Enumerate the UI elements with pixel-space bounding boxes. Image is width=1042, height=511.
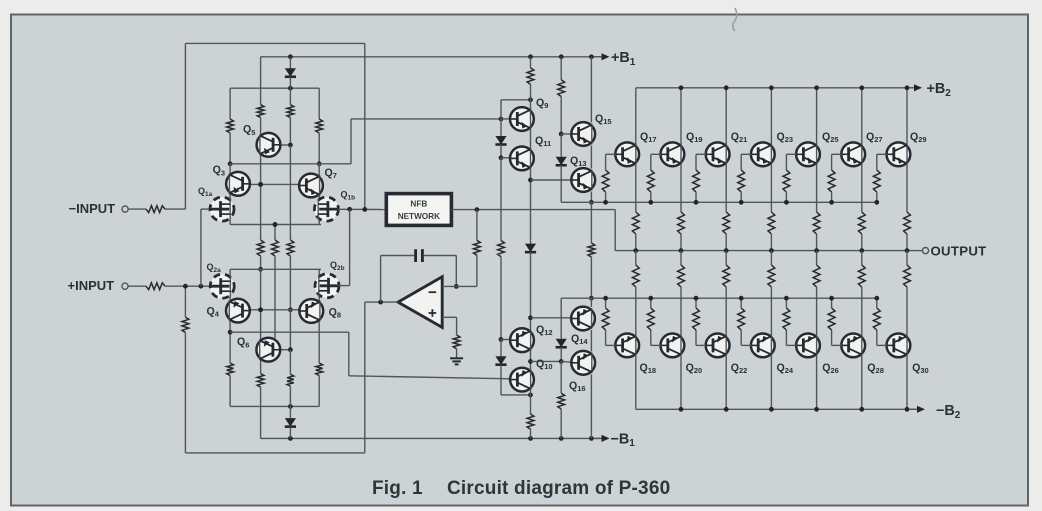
wire Q2b gate lead bbox=[338, 285, 349, 287]
wire Q14 base lead bbox=[531, 317, 572, 319]
wire bias column Q6 base down bbox=[289, 350, 291, 375]
junction lower bus col 6 bbox=[874, 296, 879, 301]
resistor Q15 bias bbox=[558, 80, 565, 97]
wire emitter Q19 down bbox=[680, 164, 682, 212]
wire collector Q17 to +B2 bbox=[635, 88, 637, 145]
wire center column to lower bus bbox=[260, 256, 262, 269]
junction +B2 rail col 5 bbox=[859, 85, 864, 90]
wire base resistor Q23 to bus bbox=[740, 192, 742, 202]
junction upper bus col 2 bbox=[694, 200, 699, 205]
wire base resistor Q21 to bus bbox=[695, 192, 697, 202]
wire op-amp apex lead bbox=[365, 301, 398, 303]
resistor emitter Q29 bbox=[904, 212, 911, 234]
wire diode chain to Q11 base bbox=[500, 148, 502, 158]
wire middle tail resistor lower lead bbox=[274, 256, 276, 338]
resistor center tail middle bbox=[272, 240, 279, 256]
transistor Q4 bbox=[226, 299, 250, 323]
junction upper bus middle resistor bbox=[273, 222, 278, 227]
wire Q2b gate tie vertical bbox=[349, 209, 351, 285]
wire collector Q21 to +B2 bbox=[725, 88, 727, 145]
wire base resistor Q30 to bus bbox=[876, 298, 878, 308]
junction -B2 rail col 5 bbox=[859, 407, 864, 412]
resistor -INPUT series bbox=[146, 206, 165, 213]
wire base lead Q28 bbox=[832, 344, 842, 346]
wire VAS column to node bbox=[530, 84, 532, 99]
junction Q5 base bbox=[288, 143, 293, 148]
wire base resistor Q17 to bus bbox=[605, 192, 607, 202]
junction -B2 rail col 1 bbox=[679, 407, 684, 412]
wire lower source bus bbox=[230, 268, 321, 270]
wire Q13 emitter to upper bus bbox=[590, 192, 592, 203]
resistor base Q26 bbox=[783, 308, 790, 330]
transistor Q30 bbox=[887, 334, 911, 358]
wire resistor to ground bbox=[456, 349, 458, 359]
wire VAS column to Q12 bbox=[530, 256, 532, 395]
junction upper bus col 1 bbox=[648, 200, 653, 205]
wire Q10 base line bbox=[349, 376, 511, 379]
wire base resistor Q25 to bus bbox=[785, 192, 787, 202]
wire center column to -B1 corner bbox=[260, 387, 262, 438]
wire collector Q26 to -B2 bbox=[816, 355, 818, 409]
wire diode chain bottom segment bbox=[500, 340, 502, 353]
transistor Q6 bbox=[256, 338, 280, 362]
wire +INPUT resistor to gate lead bbox=[165, 285, 211, 287]
svg-text:OUTPUT: OUTPUT bbox=[931, 244, 987, 259]
junction output rail col 3 bbox=[769, 248, 774, 253]
transistor Q19 bbox=[661, 142, 685, 166]
wire base tap line y332 bbox=[230, 331, 349, 333]
diode D3 bbox=[500, 353, 502, 356]
wire Q1a gate lead bbox=[201, 208, 211, 210]
wire Q9 base lead bbox=[501, 118, 510, 120]
wire Q16 base lead bbox=[561, 360, 571, 363]
transistor Q27 bbox=[841, 142, 865, 166]
wire Q15 bias column from +B1 bbox=[560, 57, 562, 80]
wire center column from +B1 bbox=[260, 57, 262, 105]
wire -B2 rail bbox=[636, 408, 917, 410]
junction Q16 base bbox=[559, 359, 564, 364]
resistor base Q23 bbox=[738, 170, 745, 192]
wire middle tail resistor upper lead bbox=[274, 225, 276, 241]
resistor emitter Q17 bbox=[632, 212, 639, 234]
junction lower bus col 1 bbox=[648, 296, 653, 301]
junction -B1 left diode branch bbox=[288, 436, 293, 441]
wire diode to Q16 base node bbox=[560, 351, 562, 362]
resistor diode chain middle bbox=[498, 241, 505, 257]
wire -INPUT to resistor bbox=[128, 208, 146, 210]
junction upper bus col 4 bbox=[784, 200, 789, 205]
junction +B1 left diode branch bbox=[288, 54, 293, 59]
wire collector Q29 to +B2 bbox=[906, 88, 908, 145]
resistor between buses bbox=[588, 243, 595, 257]
wire Q15 base lead bbox=[561, 133, 571, 135]
junction -B2 rail col 4 bbox=[814, 407, 819, 412]
junction -B2 rail col 2 bbox=[724, 407, 729, 412]
wire emitter resistor Q20 to transistor bbox=[680, 287, 682, 335]
wire top feedback loop right vertical bbox=[364, 43, 366, 209]
resistor right column upper bbox=[316, 119, 323, 133]
diode D4 bbox=[560, 154, 562, 157]
resistor base Q30 bbox=[873, 308, 880, 330]
wire NFB output line bbox=[451, 209, 615, 211]
transistor Q29 bbox=[887, 142, 911, 166]
junction -B1 Q16 bias column bbox=[559, 436, 564, 441]
transistor Q2a (FET) bbox=[210, 274, 234, 298]
transistor Q18 bbox=[615, 334, 639, 358]
wire base lead Q26 bbox=[786, 344, 796, 346]
wire emitter Q24 up bbox=[770, 251, 772, 265]
wire base resistor Q26 to bus bbox=[785, 298, 787, 308]
junction Q8 base bbox=[288, 307, 293, 312]
junction +INPUT loop node bbox=[183, 284, 188, 289]
junction +B2 rail col 6 bbox=[905, 85, 910, 90]
wire base resistor Q20 to bus bbox=[650, 298, 652, 308]
junction lower bus col 2 bbox=[694, 296, 699, 301]
wire Q3-Q7 base line bbox=[250, 183, 299, 185]
wire left column Q2a/Q4 feed bbox=[229, 269, 231, 351]
resistor base Q21 bbox=[693, 170, 700, 192]
op-amp plus sign bbox=[429, 312, 437, 314]
resistor center tail right bbox=[287, 240, 294, 256]
wire base resistor Q24 to bus bbox=[740, 298, 742, 308]
wire VAS column Q9 Q11 segment bbox=[530, 100, 532, 241]
resistor base Q27 bbox=[828, 170, 835, 192]
junction Q16 base tap bbox=[528, 359, 533, 364]
wire emitter resistor Q28 to transistor bbox=[861, 287, 863, 335]
wire diode chain Q9 base segment bbox=[500, 119, 502, 133]
wire base lead Q29 bbox=[877, 153, 887, 155]
wire base Q21 down bbox=[695, 154, 697, 170]
wire +B1 rail bbox=[261, 56, 601, 58]
wire emitter resistor Q25 to output rail bbox=[816, 234, 818, 251]
wire op-amp inverting lead bbox=[442, 285, 477, 287]
junction output rail col 0 bbox=[633, 248, 638, 253]
wire base lead Q27 bbox=[832, 153, 842, 155]
wire base resistor Q29 to bus bbox=[876, 192, 878, 202]
junction upper bus driver bbox=[589, 200, 594, 205]
wire emitter resistor Q17 to output rail bbox=[635, 234, 637, 251]
wire Q15 to Q13 bbox=[590, 146, 592, 169]
resistor center column upper bbox=[257, 105, 264, 118]
transistor Q17 bbox=[615, 142, 639, 166]
resistor to ground bbox=[453, 335, 460, 349]
terminal +INPUT bbox=[122, 283, 128, 289]
wire emitter resistor Q18 to transistor bbox=[635, 287, 637, 335]
resistor +INPUT series bbox=[146, 283, 165, 290]
transistor Q21 bbox=[706, 142, 730, 166]
wire Q5 base lead bbox=[280, 144, 290, 146]
wire Q12 base lead bbox=[501, 339, 510, 341]
resistor emitter Q21 bbox=[723, 212, 730, 234]
junction -B1 VAS column bbox=[528, 436, 533, 441]
junction Q14 base tap bbox=[528, 315, 533, 320]
wire right column to collector line bbox=[318, 133, 320, 164]
resistor emitter Q19 bbox=[678, 212, 685, 234]
wire top feedback loop horizontal bbox=[185, 42, 364, 44]
wire bias column to tail resistor bbox=[289, 184, 291, 240]
wire emitter Q29 down bbox=[906, 164, 908, 212]
resistor base Q18 bbox=[602, 308, 609, 330]
wire bottom servo loop left vertical lower part bbox=[184, 333, 186, 453]
resistor emitter Q24 bbox=[768, 265, 775, 287]
wire Q15 base node to diode bbox=[560, 134, 562, 154]
wire base lead Q24 bbox=[741, 344, 751, 346]
resistor left column upper bbox=[227, 119, 234, 133]
terminal -INPUT bbox=[122, 206, 128, 212]
resistor emitter Q20 bbox=[678, 265, 685, 287]
wire emitter resistor Q22 to transistor bbox=[725, 287, 727, 335]
resistor base Q19 bbox=[647, 170, 654, 192]
diode D1 bbox=[500, 133, 502, 137]
wire Q13 base lead bbox=[531, 179, 574, 181]
junction -B1 driver column bbox=[589, 436, 594, 441]
junction lower bus col 3 bbox=[739, 296, 744, 301]
wire base resistor Q19 to bus bbox=[650, 192, 652, 202]
junction upper bus col 3 bbox=[739, 200, 744, 205]
wire base Q27 down bbox=[831, 154, 833, 170]
resistor base Q17 bbox=[602, 170, 609, 192]
transistor Q23 bbox=[751, 142, 775, 166]
wire emitter Q26 up bbox=[816, 251, 818, 265]
wire diode to upper base bus corner bbox=[560, 169, 562, 203]
wire emitter resistor Q23 to output rail bbox=[770, 234, 772, 251]
wire capacitor left lead bbox=[381, 255, 415, 257]
wire center column to Q5 bbox=[260, 118, 262, 185]
resistor base Q20 bbox=[647, 308, 654, 330]
op-amp U1 bbox=[398, 277, 442, 328]
diode D2 bbox=[530, 240, 532, 243]
wire center column Q6 feed bbox=[260, 269, 262, 373]
resistor emitter Q18 bbox=[632, 265, 639, 287]
junction Q4 base node bbox=[258, 307, 263, 312]
wire Q1b gate lead to NFB network bbox=[338, 208, 387, 210]
wire base resistor Q27 to bus bbox=[831, 192, 833, 202]
junction lower bus col 0 bbox=[603, 296, 608, 301]
junction Q11 base bbox=[499, 155, 504, 160]
junction Q9 base line diode chain bbox=[499, 117, 504, 122]
wire base Q24 up bbox=[740, 330, 742, 345]
transistor Q28 bbox=[841, 334, 865, 358]
wire base lead Q19 bbox=[651, 153, 661, 155]
wire collector Q28 to -B2 bbox=[861, 355, 863, 409]
resistor emitter Q25 bbox=[813, 212, 820, 234]
wire collector Q18 to -B2 bbox=[635, 355, 637, 409]
wire capacitor right lead bbox=[424, 255, 457, 257]
wire bias column to box bottom bbox=[289, 386, 291, 406]
wire inner box bottom bbox=[230, 405, 319, 407]
wire base lead Q23 bbox=[741, 153, 751, 155]
junction left column collector line bbox=[228, 161, 233, 166]
transistor Q24 bbox=[751, 334, 775, 358]
junction box bottom diode column bbox=[288, 404, 293, 409]
wire base resistor Q22 to bus bbox=[695, 298, 697, 308]
wire left column to collector line bbox=[229, 133, 231, 164]
wire base Q17 down bbox=[605, 154, 607, 170]
wire base lead Q17 bbox=[606, 153, 616, 155]
transistor Q20 bbox=[661, 334, 685, 358]
junction lower bus driver bbox=[589, 296, 594, 301]
resistor Q16 bias bbox=[558, 393, 565, 409]
wire base Q26 up bbox=[785, 330, 787, 345]
transistor Q11 bbox=[510, 147, 534, 171]
wire base Q18 up bbox=[605, 330, 607, 345]
wire bias column to Q5 base bbox=[289, 118, 291, 145]
wire right column Q7/Q1b feed bbox=[318, 164, 320, 225]
resistor base Q22 bbox=[693, 308, 700, 330]
wire collector Q19 to +B2 bbox=[680, 88, 682, 145]
junction op-amp apex capacitor branch bbox=[378, 300, 383, 305]
wire Q16 bias resistor upper lead bbox=[560, 361, 562, 393]
wire Q16 bias to -B1 bbox=[560, 409, 562, 438]
junction +B1 driver column bbox=[589, 54, 594, 59]
wire emitter Q17 down bbox=[635, 164, 637, 212]
wire capacitor branch vertical bbox=[380, 256, 382, 303]
resistor base Q24 bbox=[738, 308, 745, 330]
wire base resistor Q28 to bus bbox=[831, 298, 833, 308]
wire left column Q3/Q1a feed bbox=[229, 164, 231, 225]
resistor emitter Q26 bbox=[813, 265, 820, 287]
wire right column to box bottom bbox=[318, 351, 320, 363]
wire bias resistor between buses lower lead bbox=[590, 257, 592, 298]
wire left column to box bottom bbox=[229, 351, 231, 363]
junction +INPUT gate tie node bbox=[199, 284, 204, 289]
wire VAS column from +B1 bbox=[530, 57, 532, 68]
wire emitter resistor Q24 to transistor bbox=[770, 287, 772, 335]
wire base lead Q18 bbox=[606, 344, 616, 346]
resistor VAS column bottom bbox=[527, 414, 534, 429]
wire non-inverting to resistor bbox=[456, 317, 458, 335]
wire diode chain top corner bbox=[500, 100, 502, 119]
wire emitter Q25 down bbox=[816, 164, 818, 212]
wire bias column Q5 base to Q7 base bbox=[289, 145, 291, 184]
wire diode chain middle segment bbox=[500, 158, 502, 241]
arrow +B1 bbox=[595, 56, 604, 58]
svg-text:−INPUT: −INPUT bbox=[69, 201, 116, 216]
junction +B2 rail col 4 bbox=[814, 85, 819, 90]
junction output rail col 1 bbox=[679, 248, 684, 253]
junction NFB line op-amp branch bbox=[475, 207, 480, 212]
junction Q13 base tap bbox=[528, 178, 533, 183]
diode left block bottom bbox=[289, 406, 291, 418]
junction Q3 base node bbox=[258, 182, 263, 187]
junction upper bus col 6 bbox=[874, 200, 879, 205]
junction +B1 Q9 column bbox=[528, 54, 533, 59]
resistor emitter Q30 bbox=[904, 265, 911, 287]
wire lower base bus bbox=[561, 297, 877, 299]
transistor Q16 bbox=[571, 351, 595, 375]
resistor center column lower bbox=[257, 374, 264, 388]
wire right column top segment bbox=[318, 88, 320, 119]
junction +B2 rail col 2 bbox=[724, 85, 729, 90]
transistor Q13 bbox=[571, 168, 595, 192]
wire lower base bus corner down bbox=[560, 298, 562, 335]
transistor Q9 bbox=[510, 107, 534, 131]
resistor on servo loop left vertical bbox=[182, 317, 189, 332]
wire upper base bus bbox=[561, 201, 877, 203]
arrow -B1 bbox=[595, 437, 604, 439]
resistor base Q29 bbox=[873, 170, 880, 192]
svg-text:NETWORK: NETWORK bbox=[398, 212, 440, 221]
junction lower bus col 5 bbox=[829, 296, 834, 301]
wire +INPUT to resistor bbox=[128, 285, 146, 287]
wire OUTPUT rail bbox=[615, 250, 922, 252]
transistor Q22 bbox=[706, 334, 730, 358]
capacitor C1 bbox=[414, 249, 417, 262]
diode D5 bbox=[560, 336, 562, 339]
transistor Q12 bbox=[510, 328, 534, 352]
transistor Q26 bbox=[796, 334, 820, 358]
junction +B1 Q15 bias column bbox=[559, 54, 564, 59]
resistor emitter Q27 bbox=[858, 212, 865, 234]
wire bias column Q8 base to Q6 base bbox=[289, 310, 291, 350]
wire base lead Q30 bbox=[877, 344, 887, 346]
junction diode chain bottom node bbox=[528, 393, 533, 398]
ground symbol bbox=[450, 357, 463, 359]
wire emitter resistor Q21 to output rail bbox=[725, 234, 727, 251]
svg-text:Circuit diagram of P-360: Circuit diagram of P-360 bbox=[447, 478, 670, 499]
op-amp minus sign bbox=[429, 291, 437, 293]
wire base Q29 down bbox=[876, 154, 878, 170]
wire base lead Q20 bbox=[651, 344, 661, 346]
wire bottom servo loop right vertical bbox=[364, 302, 366, 453]
wire base lead Q25 bbox=[786, 153, 796, 155]
wire Q4-Q8 base line bbox=[250, 309, 299, 311]
wire emitter resistor Q26 to transistor bbox=[816, 287, 818, 335]
NFB network box bbox=[386, 194, 451, 226]
wire emitter Q22 up bbox=[725, 251, 727, 265]
wire Q16 base lead from VAS bbox=[531, 360, 562, 362]
junction +B2 rail col 3 bbox=[769, 85, 774, 90]
transistor Q10 bbox=[510, 368, 534, 392]
wire -B1 rail bbox=[261, 437, 601, 439]
resistor feedback column bbox=[474, 240, 481, 255]
wire bias resistor between buses upper lead bbox=[590, 202, 592, 243]
wire diode chain bottom corner bbox=[501, 394, 531, 396]
junction Q6 base bbox=[288, 347, 293, 352]
junction center column lower bus bbox=[258, 267, 263, 272]
wire emitter resistor Q29 to output rail bbox=[906, 234, 908, 251]
wire collector Q25 to +B2 bbox=[816, 88, 818, 145]
transistor Q25 bbox=[796, 142, 820, 166]
junction Q4 base tap bbox=[258, 307, 263, 312]
arrow -B2 bbox=[910, 408, 919, 410]
transistor Q3 bbox=[226, 172, 250, 196]
wire collector Q27 to +B2 bbox=[861, 88, 863, 145]
wire driver column from +B1 bbox=[590, 57, 592, 123]
wire collector Q24 to -B2 bbox=[770, 355, 772, 409]
junction -B2 rail col 3 bbox=[769, 407, 774, 412]
junction left column base tap line bbox=[228, 330, 233, 335]
wire inner box top bbox=[230, 87, 319, 89]
wire capacitor to feedback node bbox=[455, 256, 457, 287]
junction output rail col 5 bbox=[859, 248, 864, 253]
junction Q15 base bbox=[559, 132, 564, 137]
wire emitter resistor Q19 to output rail bbox=[680, 234, 682, 251]
resistor base Q28 bbox=[828, 308, 835, 330]
resistor right column lower bbox=[316, 363, 323, 376]
svg-text:+INPUT: +INPUT bbox=[68, 278, 115, 293]
wire lower bus to Q14 bbox=[590, 298, 592, 307]
wire VAS column bottom bbox=[530, 395, 532, 414]
wire diode chain to Q12 base bbox=[500, 257, 502, 340]
resistor VAS column top bbox=[527, 68, 534, 85]
wire collector Q20 to -B2 bbox=[680, 355, 682, 409]
wire collector Q22 to -B2 bbox=[725, 355, 727, 409]
junction upper bus col 0 bbox=[603, 200, 608, 205]
wire right column Q2b/Q8 feed bbox=[318, 269, 320, 351]
wire base lead Q22 bbox=[696, 344, 706, 346]
resistor bias column lower bbox=[287, 374, 294, 386]
